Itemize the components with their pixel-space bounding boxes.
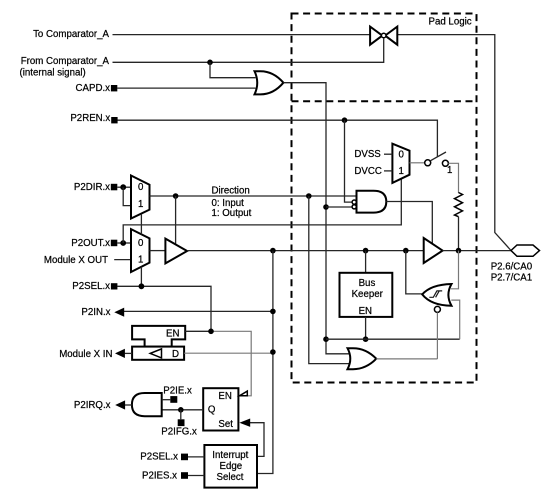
latch D box xyxy=(132,347,184,360)
wire schmitt enable from OR2 xyxy=(436,312,438,359)
svg-text:P2IRQ.x: P2IRQ.x xyxy=(74,400,111,411)
flipflop EN triangle xyxy=(240,391,248,396)
svg-text:1: 1 xyxy=(447,165,452,176)
wire branch to OR1 upper input xyxy=(210,62,256,77)
node junction From Comparator_A xyxy=(207,60,213,66)
svg-text:P2IES.x: P2IES.x xyxy=(142,470,177,481)
wire P2DIR to mux input 1 xyxy=(123,187,131,205)
svg-text:P2SEL.x: P2SEL.x xyxy=(72,281,110,292)
node junction buskeeper-339 xyxy=(363,336,369,342)
node junction OR1-AND xyxy=(323,204,329,210)
wire AND output to driver enable xyxy=(386,202,432,244)
node junction Q-P2IFG xyxy=(178,407,184,413)
pin square P2DIR.x xyxy=(111,184,118,191)
svg-text:Module X OUT: Module X OUT xyxy=(44,255,108,266)
svg-text:P2IE.x: P2IE.x xyxy=(163,385,192,396)
pin square P2SEL.x xyxy=(111,283,118,289)
svg-text:Q: Q xyxy=(208,404,216,415)
node junction D line xyxy=(270,349,276,355)
wire P2REN to AND bubble xyxy=(345,120,352,202)
wire From Comparator_A xyxy=(113,38,384,62)
svg-text:DVSS: DVSS xyxy=(354,149,381,160)
svg-text:Direction: Direction xyxy=(212,185,250,196)
node junction P2OUT xyxy=(120,240,126,246)
svg-text:EN: EN xyxy=(359,306,372,317)
wire OR1 output down xyxy=(283,83,349,354)
pin square P2OUT.x xyxy=(111,240,118,247)
svg-text:Interrupt: Interrupt xyxy=(212,450,248,461)
bubble U2 input a xyxy=(352,200,356,204)
arrow Set xyxy=(239,419,250,427)
arrow Module X IN xyxy=(115,349,125,358)
svg-text:P2REN.x: P2REN.x xyxy=(70,113,110,124)
node junction pad xyxy=(456,248,462,254)
interrupt edge select box xyxy=(204,445,257,488)
wire Module X OUT xyxy=(114,259,131,261)
wire mux M2 output xyxy=(150,250,166,252)
wire P2IRQ line xyxy=(125,404,132,406)
svg-text:Pad Logic: Pad Logic xyxy=(429,16,472,27)
mux M2 P2OUT xyxy=(131,229,150,272)
wire schmitt output xyxy=(406,251,423,294)
wire P2SEL bottom stub xyxy=(188,456,204,458)
pin square CAPD.x xyxy=(111,85,117,91)
wire Direction to buffer1 enable xyxy=(175,196,177,244)
wire Direction to OR2 lower input xyxy=(309,196,350,364)
wire bus keeper top xyxy=(365,251,367,273)
node junction main-buskeeper xyxy=(363,248,369,254)
wire bus keeper bottom xyxy=(365,317,367,339)
wire main internal data line xyxy=(187,250,424,252)
buffer B2 pad driver xyxy=(424,238,443,263)
wire Module X IN xyxy=(125,352,132,354)
svg-text:Keeper: Keeper xyxy=(352,289,384,300)
and-gate U4 interrupt (mirrored) xyxy=(132,393,162,416)
wire P2IN.x xyxy=(124,310,273,312)
wire mux select chain P2SEL xyxy=(140,214,142,286)
svg-text:0: Input: 0: Input xyxy=(212,198,245,209)
svg-text:0: 0 xyxy=(138,182,144,193)
node junction main-schmitt xyxy=(403,248,409,254)
pin square P2IE.x xyxy=(170,396,177,403)
wire pad to transmission gate xyxy=(398,35,512,251)
wire mux M3 output xyxy=(410,162,425,164)
svg-text:0: 0 xyxy=(399,150,405,161)
node junction EN-P2SEL xyxy=(208,329,214,335)
svg-text:1: 1 xyxy=(138,254,143,265)
node junction Direction-OR2 xyxy=(306,193,312,199)
latch D triangle xyxy=(150,349,161,358)
svg-text:From Comparator_A: From Comparator_A xyxy=(21,56,110,67)
node junction P2DIR xyxy=(120,184,126,190)
wire P2REN.x xyxy=(118,120,438,156)
svg-text:CAPD.x: CAPD.x xyxy=(76,83,111,94)
svg-text:DVCC: DVCC xyxy=(354,166,381,177)
svg-text:Select: Select xyxy=(217,472,244,483)
svg-text:P2IN.x: P2IN.x xyxy=(81,307,110,318)
wire Set line xyxy=(250,423,264,457)
wire P2IE to AND xyxy=(162,399,171,401)
svg-text:To Comparator_A: To Comparator_A xyxy=(33,29,109,40)
node junction Direction-buffer xyxy=(173,193,179,199)
svg-text:Edge: Edge xyxy=(220,461,243,472)
wire main branch down to interrupt xyxy=(257,251,273,474)
node junction P2SEL-selects xyxy=(139,283,145,289)
wire 339 line xyxy=(326,338,460,340)
svg-text:EN: EN xyxy=(166,328,179,339)
wire latch D line xyxy=(184,352,273,354)
svg-text:D: D xyxy=(172,349,179,360)
svg-text:0: 0 xyxy=(138,238,144,249)
wire P2IFG stub xyxy=(180,410,182,420)
node junction OR1-339 xyxy=(323,336,329,342)
mux M1 P2DIR xyxy=(131,176,150,219)
schmitt hysteresis symbol xyxy=(429,291,442,297)
svg-text:P2SEL.x: P2SEL.x xyxy=(140,452,178,463)
and-gate U2 (resistor enable) xyxy=(357,191,387,213)
pad hexagon P2.6/CA0 P2.7/CA1 xyxy=(511,245,540,256)
wire P2IES stub xyxy=(188,475,204,477)
wire P2SEL.x xyxy=(117,286,211,331)
svg-text:1: 1 xyxy=(138,199,143,210)
svg-text:P2.7/CA1: P2.7/CA1 xyxy=(491,273,532,284)
svg-text:P2DIR.x: P2DIR.x xyxy=(74,182,110,193)
svg-text:P2IFG.x: P2IFG.x xyxy=(161,427,197,438)
svg-text:1: 1 xyxy=(399,166,404,177)
bubble U2 input b xyxy=(352,205,356,209)
wire DVSS stub xyxy=(384,153,392,155)
arrow P2IRQ.x xyxy=(115,400,125,409)
outer dashed box Pad Logic xyxy=(292,14,477,383)
wire P2OUT.x xyxy=(117,242,131,244)
transmission gate (analog switch) xyxy=(370,27,397,45)
node junction main-down xyxy=(270,248,276,254)
wire Q output xyxy=(162,409,204,411)
wire P2OUT to DVSS-DVCC mux select xyxy=(123,179,401,243)
buffer B1 (output driver after P2OUT mux) xyxy=(165,239,187,264)
wire OR2 output xyxy=(376,358,437,360)
latch EN box xyxy=(132,326,185,347)
svg-text:EN: EN xyxy=(218,391,231,402)
interrupt flip-flop box xyxy=(203,388,238,430)
svg-text:Module X IN: Module X IN xyxy=(59,349,112,360)
wire switch to resistor xyxy=(448,163,458,193)
pin square P2IFG.x xyxy=(178,419,185,426)
svg-text:P2.6/CA0: P2.6/CA0 xyxy=(491,262,533,273)
bubble schmitt enable xyxy=(434,306,440,312)
node junction P2REN xyxy=(342,117,348,123)
inner dashed divider xyxy=(292,100,477,102)
wire To Comparator_A xyxy=(113,34,371,36)
wire pad line xyxy=(443,250,511,252)
svg-text:Set: Set xyxy=(218,419,233,430)
svg-text:Bus: Bus xyxy=(359,278,376,289)
pin square P2SEL.x bottom xyxy=(181,454,188,461)
wire Direction xyxy=(150,195,357,197)
wire pad to schmitt input xyxy=(451,251,459,289)
switch S1 xyxy=(425,152,449,166)
arrow P2IN.x xyxy=(114,308,124,317)
pin square P2REN.x xyxy=(111,117,117,123)
or-gate U1 (CAPD enable) xyxy=(255,71,284,94)
svg-text:P2OUT.x: P2OUT.x xyxy=(71,238,110,249)
wire resistor to pad xyxy=(458,217,460,251)
svg-text:(internal signal): (internal signal) xyxy=(20,68,86,79)
mux M3 DVSS/DVCC xyxy=(392,144,409,183)
schmitt trigger input buffer xyxy=(422,284,451,306)
wire stub to AND bubble xyxy=(326,206,352,208)
svg-text:1: Output: 1: Output xyxy=(212,208,252,219)
resistor R1 xyxy=(455,193,463,217)
wire latch EN line xyxy=(185,330,211,332)
bus keeper box xyxy=(340,273,393,317)
wire DVCC stub xyxy=(384,170,392,172)
wire P2DIR.x xyxy=(117,186,131,188)
pin square P2IES.x xyxy=(181,472,188,479)
node junction P2IN xyxy=(270,309,276,315)
or-gate U3 (input buffer enable) xyxy=(348,348,377,369)
wire CAPD.x xyxy=(117,87,255,89)
